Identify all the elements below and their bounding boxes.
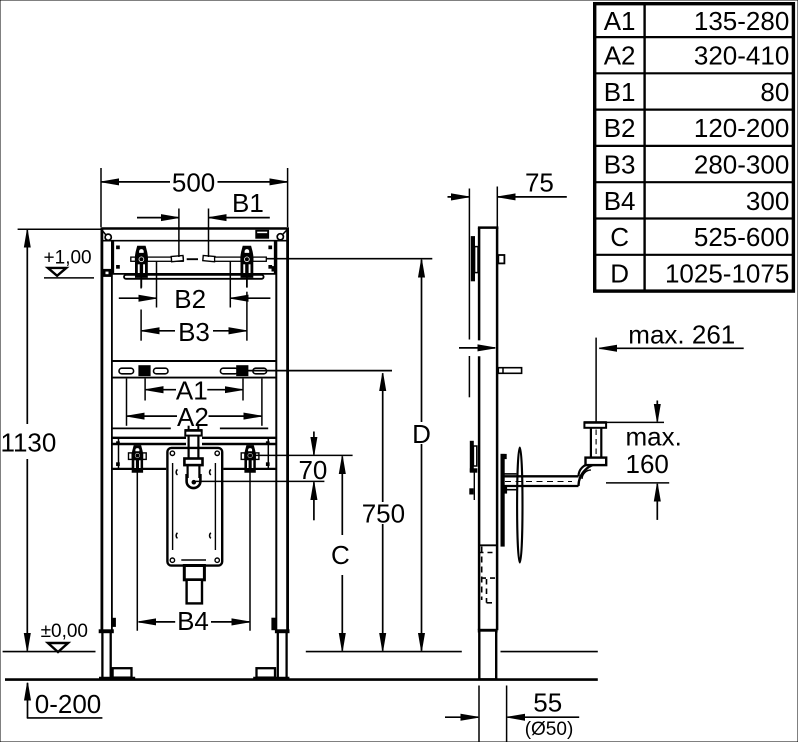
threaded rod right tab bbox=[203, 255, 215, 261]
side leg foot bbox=[478, 629, 497, 679]
dimension 1130 bbox=[0, 229, 100, 651]
water inlet fitting bbox=[184, 426, 202, 488]
dimension B3 bbox=[141, 280, 247, 347]
middle rail slot 1 bbox=[119, 368, 134, 374]
left leg bbox=[99, 618, 135, 678]
dimension 75 bbox=[448, 168, 567, 398]
dimension 500 bbox=[101, 168, 288, 228]
svg-text:75: 75 bbox=[525, 168, 554, 198]
leader line mid rail to dimension 750 bbox=[248, 370, 392, 372]
wall anchor right (lower) bbox=[241, 446, 259, 631]
svg-text:B4: B4 bbox=[177, 606, 209, 636]
svg-text:70: 70 bbox=[298, 455, 327, 485]
max. 261 arrow into wall bbox=[459, 347, 495, 349]
side profile main bar bbox=[478, 228, 499, 631]
leader fitting outlet to dimension 70 (bottom) bbox=[196, 480, 325, 482]
trap mounting bracket (right of profile) bbox=[501, 454, 507, 546]
middle rail slot 3 bbox=[220, 368, 238, 374]
anchor slider left (black) bbox=[139, 366, 150, 376]
svg-text:55: 55 bbox=[533, 688, 562, 718]
dimension A2 bbox=[127, 379, 262, 432]
svg-text:280-300: 280-300 bbox=[694, 150, 789, 180]
dimension D bbox=[412, 260, 431, 651]
frame left rail bbox=[102, 228, 112, 632]
svg-text:750: 750 bbox=[362, 498, 405, 528]
svg-text:C: C bbox=[331, 540, 350, 570]
table frame bbox=[595, 4, 794, 291]
side hanger bolt tab (middle) bbox=[498, 368, 521, 374]
mounting plate bbox=[167, 448, 222, 566]
finished floor line bbox=[3, 651, 598, 653]
dimension C bbox=[331, 456, 350, 650]
rod centerline dash bbox=[187, 258, 198, 260]
svg-text:0-200: 0-200 bbox=[35, 689, 102, 719]
hanger bolt left (top) bbox=[136, 246, 148, 287]
svg-text:B4: B4 bbox=[604, 186, 636, 216]
svg-text:1130: 1130 bbox=[0, 427, 56, 457]
threaded rod left segment bbox=[147, 257, 183, 261]
anchors centerline dashes bbox=[178, 453, 211, 455]
trap vertical pipe bbox=[584, 422, 607, 465]
svg-text:300: 300 bbox=[746, 186, 789, 216]
anchor slider right (black) bbox=[237, 366, 248, 376]
middle rail bbox=[113, 361, 276, 378]
threaded rod right segment bbox=[215, 257, 241, 261]
pipe sleeve bbox=[504, 474, 517, 490]
support bracket bar bbox=[124, 275, 264, 279]
dimension max. 261 bbox=[596, 320, 744, 422]
svg-text:1025-1075: 1025-1075 bbox=[665, 258, 789, 288]
table column separator bbox=[643, 4, 645, 291]
side wall bracket (top) bbox=[471, 237, 478, 281]
side wall bracket (lower) bbox=[470, 441, 477, 500]
control box top right bbox=[256, 230, 269, 238]
svg-text:B2: B2 bbox=[604, 113, 636, 143]
lower rail top edge bbox=[113, 427, 269, 429]
svg-text:D: D bbox=[610, 258, 629, 288]
trap horizontal pipe bbox=[504, 476, 579, 486]
svg-text:(Ø50): (Ø50) bbox=[525, 719, 574, 740]
lower rail band bbox=[113, 438, 276, 469]
svg-text:A1: A1 bbox=[604, 6, 636, 36]
leader line rod to dimension D bbox=[266, 258, 432, 260]
left rail clamp bbox=[101, 269, 111, 276]
side tab (top right) bbox=[498, 255, 504, 263]
upper crossbar box bbox=[113, 242, 276, 274]
middle rail slot 4 bbox=[253, 368, 267, 374]
dimension B1 bbox=[137, 188, 270, 257]
svg-text:max.: max. bbox=[626, 422, 682, 452]
svg-text:B1: B1 bbox=[604, 77, 636, 107]
dimension 0-200 bbox=[27, 683, 103, 719]
threaded rod right stub bbox=[253, 257, 266, 261]
level mark +1,00 bbox=[44, 248, 94, 278]
svg-text:D: D bbox=[412, 419, 431, 449]
dimension 70 bbox=[298, 432, 327, 521]
svg-text:320-410: 320-410 bbox=[694, 41, 789, 71]
dimension B2 bbox=[119, 262, 271, 315]
svg-text:max. 261: max. 261 bbox=[628, 320, 735, 350]
raw floor line bbox=[5, 678, 598, 681]
right leg bbox=[253, 618, 289, 678]
frame right rail bbox=[276, 228, 287, 632]
hanger bolt right (top) bbox=[241, 246, 253, 287]
svg-text:B3: B3 bbox=[604, 150, 636, 180]
table row lines bbox=[595, 36, 794, 38]
profile internals (hidden lines) bbox=[478, 545, 497, 603]
svg-text:160: 160 bbox=[626, 449, 669, 479]
wall escutcheon disc (side) bbox=[517, 448, 522, 563]
frame top plate bbox=[101, 229, 289, 241]
svg-text:B1: B1 bbox=[232, 188, 264, 218]
svg-text:+1,00: +1,00 bbox=[44, 248, 92, 269]
svg-text:B3: B3 bbox=[178, 317, 210, 347]
top-right corner screw bbox=[277, 229, 287, 240]
right rail clamp bbox=[272, 267, 276, 271]
dimension 750 bbox=[362, 373, 405, 651]
threaded rod left stub bbox=[131, 257, 136, 261]
dimension 55 bbox=[445, 686, 579, 742]
middle rail slot 2 bbox=[154, 368, 169, 374]
dimension B4 bbox=[139, 606, 250, 636]
dimension A1 bbox=[145, 375, 243, 405]
drain spigot below plate bbox=[184, 566, 204, 604]
svg-text:A2: A2 bbox=[604, 41, 636, 71]
svg-text:±0,00: ±0,00 bbox=[41, 621, 88, 642]
svg-text:120-200: 120-200 bbox=[694, 113, 789, 143]
wall anchor left (lower) bbox=[129, 446, 147, 631]
top-left corner screw bbox=[102, 230, 111, 240]
svg-text:500: 500 bbox=[172, 168, 215, 198]
svg-text:B2: B2 bbox=[174, 284, 206, 314]
svg-text:80: 80 bbox=[760, 77, 789, 107]
trap elbow bbox=[579, 463, 602, 486]
svg-text:525-600: 525-600 bbox=[694, 222, 789, 252]
threaded rod left tab bbox=[171, 255, 183, 261]
svg-text:A2: A2 bbox=[177, 402, 209, 432]
dimension max. 160 bbox=[606, 401, 682, 520]
svg-text:135-280: 135-280 bbox=[694, 6, 789, 36]
svg-text:C: C bbox=[610, 222, 629, 252]
leader anchor to dimension 70 (top) bbox=[255, 454, 352, 456]
level mark ±0,00 bbox=[41, 621, 88, 652]
